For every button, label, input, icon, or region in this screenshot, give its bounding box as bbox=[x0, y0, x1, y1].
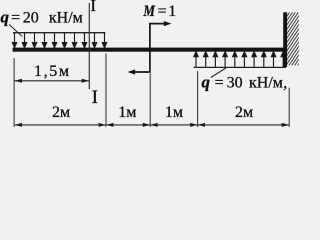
arrows bottom row bbox=[15, 123, 289, 127]
svg-text:I: I bbox=[92, 88, 98, 108]
extension line left (x=14) bbox=[13, 58, 15, 127]
beam bbox=[13, 48, 288, 52]
svg-text:2м: 2м bbox=[52, 104, 70, 121]
distributed load q=30 bottom line bbox=[194, 66, 287, 68]
extension line right (x=289) bbox=[288, 88, 290, 127]
extension line at 4m (x=197.6) bbox=[197, 71, 199, 127]
distributed load q=20 arrows bbox=[12, 33, 106, 48]
svg-text:1,5м: 1,5м bbox=[34, 63, 71, 80]
distributed load q=30 arrows (upward) bbox=[194, 52, 286, 68]
svg-text:2м: 2м bbox=[235, 104, 253, 121]
leader line for q=30 label bbox=[211, 68, 226, 78]
fixed support wall line bbox=[283, 12, 287, 67]
dimension line bottom row bbox=[15, 124, 289, 126]
dimension line 1,5m bbox=[15, 80, 89, 82]
moment bottom arm with left arrow bbox=[134, 71, 151, 73]
svg-text:I: I bbox=[90, 0, 96, 15]
extension line at 2m (x=106) bbox=[105, 54, 107, 127]
svg-text:1м: 1м bbox=[165, 104, 183, 121]
moment top arm with right arrow bbox=[149, 23, 166, 25]
distributed load q=20 top line bbox=[13, 32, 106, 34]
leader line for q=20 label bbox=[9, 25, 22, 37]
svg-text:1м: 1м bbox=[118, 104, 136, 121]
svg-text:М=1: М=1 bbox=[143, 3, 177, 20]
extension line at 3m (x=150) bbox=[149, 74, 151, 127]
moment stem bbox=[149, 23, 151, 72]
section line I-I bbox=[88, 3, 90, 89]
fixed support hatching bbox=[286, 0, 300, 92]
